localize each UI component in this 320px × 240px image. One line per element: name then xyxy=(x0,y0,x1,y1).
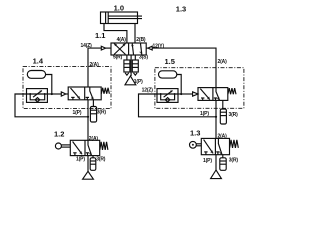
wire 12(Z) input of group 1.5 xyxy=(139,94,217,117)
valve 1.5 left cell passage xyxy=(200,89,210,101)
pilot 14(Z) arrow xyxy=(101,46,111,50)
svg-text:3(R): 3(R) xyxy=(96,156,106,162)
svg-text:1.1: 1.1 xyxy=(95,31,105,40)
wire valve 1.2 1(P) xyxy=(87,156,89,172)
svg-text:1.3: 1.3 xyxy=(176,4,186,13)
svg-text:3(R): 3(R) xyxy=(97,109,107,115)
pressure source valve 1.3 xyxy=(211,170,222,179)
wire cylinder right port to 2(B) xyxy=(134,24,136,44)
wire 14(Z) to valve 1.4 output xyxy=(88,48,101,87)
wire throttle 1.5 to pilot of valve 1.5 xyxy=(178,93,193,95)
air reservoir 1.5 xyxy=(159,71,177,78)
spring valve 1.4 xyxy=(101,88,109,94)
svg-text:1.2: 1.2 xyxy=(54,130,64,139)
svg-text:12(Z): 12(Z) xyxy=(142,87,154,93)
pilot 12(Y) arrow xyxy=(146,46,152,50)
wire reservoir 1.5 to pilot line xyxy=(177,75,181,95)
svg-text:5(R): 5(R) xyxy=(113,55,123,61)
svg-text:1.4: 1.4 xyxy=(33,56,44,65)
valve 1.5 3/2 body xyxy=(198,88,228,101)
valve 1.3 left cell passage xyxy=(204,140,214,155)
wire 1(P) of valve 1.1 xyxy=(130,55,132,76)
group 1.4 dash-dot box xyxy=(23,67,111,109)
pilot arrow valve 1.4 xyxy=(61,92,66,96)
svg-text:3(R): 3(R) xyxy=(229,158,239,164)
valve 1.3 right cell passage xyxy=(216,138,222,154)
pilot arrow valve 1.5 xyxy=(193,92,198,96)
muffler valve 1.2 3(R) xyxy=(90,156,96,171)
roller actuator valve 1.3 xyxy=(190,141,202,148)
spring valve 1.5 xyxy=(228,88,236,94)
spring valve 1.2 xyxy=(100,142,108,150)
throttle check valve 1.4 xyxy=(27,89,48,103)
junction feedback 1.4 xyxy=(87,116,89,118)
valve 1.3 3/2 body xyxy=(201,138,229,154)
throttle check valve 1.5 xyxy=(157,89,178,103)
svg-text:12(Y): 12(Y) xyxy=(153,44,165,50)
valve 1.2 3/2 body xyxy=(70,140,99,155)
valve 1.1 left cell crossed arrows xyxy=(114,44,126,55)
svg-text:1(P): 1(P) xyxy=(200,111,209,117)
spring valve 1.3 xyxy=(230,140,239,148)
svg-text:3(R): 3(R) xyxy=(229,112,239,118)
group 1.5 dash-dot box xyxy=(155,68,244,109)
valve 1.4 right cell passage xyxy=(86,87,94,100)
muffler valve 1.3 3(R) xyxy=(220,155,226,171)
muffler on 5(R) xyxy=(124,55,130,75)
muffler valve 1.5 3(R) xyxy=(220,100,226,124)
wire throttle 1.4 to pilot of valve 1.4 xyxy=(47,93,61,95)
push button valve 1.2 xyxy=(55,143,70,149)
pressure source 1(P) of valve 1.1 xyxy=(125,76,136,85)
muffler on 3(S) xyxy=(132,55,138,75)
svg-text:2(A): 2(A) xyxy=(90,62,100,68)
wire reservoir 1.4 to pilot line xyxy=(46,75,52,95)
valve 1.4 3/2 body xyxy=(68,87,101,100)
valve 1.2 left cell passage xyxy=(73,142,83,156)
valve 1.2 right cell passage xyxy=(86,140,92,155)
junction reservoir 1.4 xyxy=(51,93,53,95)
svg-text:1(P): 1(P) xyxy=(134,79,143,85)
wire cylinder left port to 4(A) xyxy=(104,24,127,44)
svg-text:1.3: 1.3 xyxy=(190,129,200,138)
valve U1.1 5/2 body xyxy=(111,43,146,55)
pressure source valve 1.2 xyxy=(83,171,94,179)
svg-text:1.5: 1.5 xyxy=(165,57,175,66)
air reservoir 1.4 xyxy=(27,71,45,79)
valve 1.4 left cell passage xyxy=(71,88,81,100)
wire valve 1.5 1(P) down to valve 1.3 output xyxy=(215,100,217,138)
junction reservoir 1.5 xyxy=(180,93,182,95)
svg-text:4(A): 4(A) xyxy=(117,37,127,43)
junction feedback 1.5 xyxy=(215,116,217,118)
wire valve 1.3 1(P) xyxy=(215,155,217,170)
svg-text:2(A): 2(A) xyxy=(218,59,228,65)
wire feedback to throttle 1.4 input xyxy=(15,94,88,117)
wire 12(Y) to valve 1.5 output xyxy=(152,48,216,88)
muffler valve 1.4 3(R) xyxy=(90,100,96,122)
valve 1.5 right cell passage xyxy=(214,88,220,101)
wire valve 1.4 1(P) down to valve 1.2 output xyxy=(87,100,89,141)
svg-text:2(A): 2(A) xyxy=(89,136,99,142)
svg-text:2(B): 2(B) xyxy=(136,37,146,43)
svg-text:1.0: 1.0 xyxy=(114,3,124,12)
svg-text:1(P): 1(P) xyxy=(76,156,85,162)
svg-text:1(P): 1(P) xyxy=(73,110,82,116)
svg-text:1(P): 1(P) xyxy=(203,158,212,164)
valve 1.1 right cell parallel arrows xyxy=(131,44,142,55)
cylinder 1.0 xyxy=(101,12,143,24)
svg-text:3(S): 3(S) xyxy=(139,55,148,61)
